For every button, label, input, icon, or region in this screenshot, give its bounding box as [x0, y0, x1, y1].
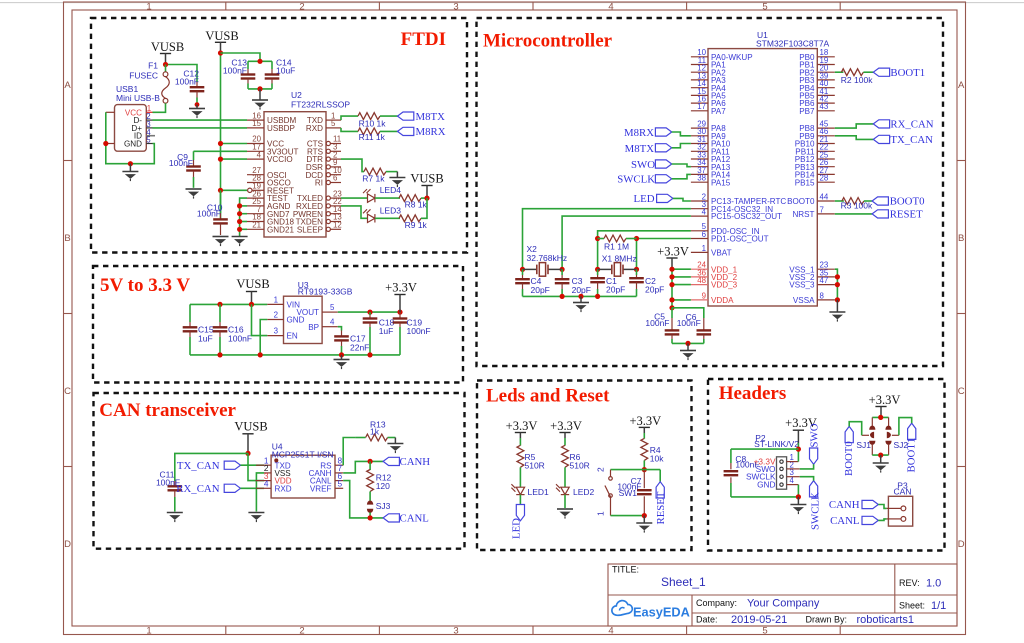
wire R6 to LED2 — [564, 467, 566, 487]
svg-text:VUSB: VUSB — [234, 420, 267, 434]
U2 right pin names — [293, 116, 324, 234]
svg-text:5: 5 — [762, 626, 767, 637]
node rail C18 — [367, 352, 372, 357]
Leds and Reset section box — [477, 381, 692, 551]
wire R7 to ground — [386, 171, 397, 173]
svg-text:20pF: 20pF — [572, 285, 591, 295]
svg-text:32.768kHz: 32.768kHz — [527, 253, 568, 263]
svg-text:1: 1 — [596, 511, 606, 516]
svg-text:+3.3V: +3.3V — [506, 419, 538, 433]
wire R5 to LED1 — [519, 467, 521, 487]
port M8RX — [398, 126, 446, 138]
svg-text:43: 43 — [820, 102, 829, 111]
wire R3 to BOOT0 — [864, 200, 872, 202]
wire BP to C17 — [338, 327, 342, 331]
svg-text:USBDP: USBDP — [267, 124, 295, 133]
svg-text:R7 1k: R7 1k — [362, 174, 385, 184]
svg-text:10uF: 10uF — [276, 66, 295, 76]
svg-text:RESET: RESET — [655, 491, 667, 524]
svg-text:100nF: 100nF — [169, 158, 193, 168]
wire R12 to SJ3 — [369, 492, 371, 501]
ground under VSS — [829, 300, 845, 322]
svg-text:D: D — [958, 539, 965, 550]
ground under C5/C6 — [680, 343, 696, 360]
wire +3.3V to R5 — [519, 438, 521, 446]
svg-text:3: 3 — [274, 327, 279, 336]
node C13/C14 top — [257, 59, 262, 64]
U1 left pin names — [711, 53, 786, 258]
wire P2 top rail to C8 — [731, 448, 799, 450]
port SWCLK (header) — [810, 481, 822, 530]
ground under USB1 — [122, 164, 138, 181]
svg-text:M8RX: M8RX — [624, 127, 654, 139]
wire EN to VIN — [252, 304, 268, 335]
wire regulator bottom rail — [190, 354, 400, 356]
svg-text:1: 1 — [146, 626, 151, 637]
svg-text:EasyEDA: EasyEDA — [633, 605, 690, 620]
capacitor C18 1uF — [363, 312, 395, 355]
svg-text:CANL: CANL — [830, 515, 859, 527]
svg-text:D: D — [64, 539, 71, 550]
svg-text:28: 28 — [820, 174, 829, 183]
power flag VUSB (regulator input) — [236, 277, 269, 304]
svg-text:38: 38 — [697, 174, 706, 183]
node R12 top — [368, 459, 373, 464]
node VCCIO pin4 — [218, 157, 223, 162]
svg-text:R2 100k: R2 100k — [841, 75, 873, 85]
resistor R9 1k — [399, 215, 428, 230]
wire PB9 to TX_CAN — [835, 136, 874, 140]
wire DTR to R7 — [341, 159, 364, 172]
svg-text:PC15-OSC32_OUT: PC15-OSC32_OUT — [711, 212, 782, 221]
node R1 right — [634, 236, 639, 241]
P2 pin stubs — [787, 462, 800, 485]
node R1 left — [595, 236, 600, 241]
svg-text:510R: 510R — [570, 461, 590, 471]
svg-text:B: B — [64, 233, 70, 244]
wire M8TX to PA10 — [672, 144, 691, 148]
svg-text:BOOT0: BOOT0 — [843, 441, 855, 476]
port CANH — [383, 456, 430, 468]
svg-text:Leds and Reset: Leds and Reset — [486, 386, 610, 407]
capacitor C10 100nF — [197, 190, 228, 235]
wire RESET pin19 — [221, 189, 248, 191]
capacitor C9 100nF — [169, 151, 201, 188]
ground under crystal rail — [573, 296, 589, 312]
port M8RX (to PA9) — [624, 127, 672, 139]
U3 pin numbers — [274, 295, 335, 335]
node GND21 — [237, 227, 242, 232]
svg-text:+3.3V: +3.3V — [869, 393, 901, 407]
svg-text:F1: F1 — [148, 61, 158, 71]
EasyEDA logo — [612, 601, 690, 620]
svg-text:1k: 1k — [370, 426, 380, 436]
wire PC15 to X2 right — [562, 216, 691, 269]
node P2 ground — [796, 494, 801, 499]
node VDD_3 — [669, 282, 674, 287]
wire GND pin to bottom rail — [260, 320, 267, 355]
crystal X1 8MHz — [598, 254, 637, 277]
LED1 — [511, 484, 549, 497]
node VCC pin20 — [218, 141, 223, 146]
wire SWCLK to PA14 — [672, 174, 691, 178]
header P2 ST-LINK/V2 — [754, 433, 799, 489]
svg-text:A: A — [64, 80, 71, 91]
svg-text:STM32F103C8T7A: STM32F103C8T7A — [756, 39, 830, 49]
svg-text:5: 5 — [338, 479, 343, 489]
svg-text:3: 3 — [453, 626, 458, 637]
LED2 — [556, 484, 595, 497]
wire reset bottom rail — [611, 515, 645, 517]
U1 left pins — [691, 57, 708, 300]
wire TXD to R10 — [341, 116, 358, 120]
wire RXLED to LED3 — [341, 206, 367, 218]
port TX_CAN (input) — [177, 460, 241, 472]
svg-text:GND: GND — [124, 140, 142, 149]
wire USBDP — [153, 127, 248, 129]
Headers section box — [708, 379, 945, 551]
Microcontroller section box — [477, 18, 944, 366]
wire CANL to flag — [343, 481, 383, 518]
svg-text:VOUT: VOUT — [297, 308, 320, 317]
wire CANH to P3 — [878, 505, 886, 509]
node rail C1 — [595, 294, 600, 299]
node VUSB rail top — [218, 50, 223, 55]
port SWCLK (to PA14) — [617, 174, 671, 186]
wire RX_CAN to RXD — [241, 487, 265, 489]
svg-text:2: 2 — [299, 626, 304, 637]
wire SWO flag to pin2 — [800, 464, 814, 469]
svg-text:2: 2 — [274, 311, 278, 320]
svg-text:22nF: 22nF — [350, 343, 369, 353]
svg-text:+3.3V: +3.3V — [385, 281, 417, 295]
wire C5/C6 top rail — [672, 308, 704, 318]
node VSSA — [835, 297, 840, 302]
resistor R11 1k — [358, 128, 386, 142]
ground under GND bus — [232, 237, 248, 247]
wire VSS to ground — [256, 473, 264, 512]
svg-text:C: C — [64, 386, 71, 397]
wire BOOT0 to R3 — [835, 200, 844, 202]
U2 left pins — [247, 120, 264, 229]
svg-text:SWO: SWO — [809, 423, 821, 447]
capacitor C6 100nF — [677, 312, 711, 343]
power flag +3.3V (boot jumpers) — [869, 393, 901, 418]
svg-text:VSS_3: VSS_3 — [789, 281, 815, 290]
svg-text:BOOT0: BOOT0 — [890, 196, 925, 208]
svg-text:VCCIO: VCCIO — [267, 155, 293, 164]
svg-text:RXD: RXD — [275, 484, 292, 493]
title block REV — [899, 578, 941, 590]
wire LED1 to port — [519, 495, 521, 508]
node X1 left — [595, 267, 600, 272]
svg-text:BOOT0: BOOT0 — [787, 197, 815, 206]
wire PD0 to X1 left — [598, 231, 691, 270]
svg-text:M8RX: M8RX — [416, 126, 446, 138]
svg-text:R9 1k: R9 1k — [405, 220, 428, 230]
node C5/C6 ground — [685, 341, 690, 346]
wire +3.3V to P2 pin1 — [797, 443, 799, 462]
title block Sheet — [899, 600, 946, 612]
svg-text:CANH: CANH — [829, 499, 860, 511]
svg-text:3: 3 — [453, 2, 458, 13]
svg-text:44: 44 — [820, 192, 829, 201]
frame row letters left — [64, 80, 71, 550]
svg-text:VREF: VREF — [310, 484, 332, 493]
svg-text:R11 1k: R11 1k — [359, 132, 386, 142]
svg-text:17: 17 — [697, 102, 706, 111]
wire VUSB to C13/C14 — [221, 53, 261, 61]
node VUSB/F1/C12 junction — [163, 62, 168, 67]
U1 right pins — [817, 57, 835, 300]
svg-text:6: 6 — [333, 174, 338, 183]
frame row letters right — [958, 80, 965, 550]
node VUSB/R8/R9 — [424, 196, 429, 201]
svg-text:Sheet_1: Sheet_1 — [661, 575, 706, 589]
svg-text:R1 1M: R1 1M — [604, 242, 629, 252]
ground under C13/C14 — [252, 89, 268, 110]
svg-text:2: 2 — [299, 2, 304, 13]
U2 left pin names — [267, 116, 299, 234]
power flag +3.3V (LED2) — [550, 419, 582, 438]
ground under LED2 — [557, 509, 573, 519]
U1 right pin names — [787, 53, 815, 305]
capacitor C1 20pF — [590, 269, 625, 296]
svg-text:R3 100k: R3 100k — [841, 201, 873, 211]
svg-text:CAN transceiver: CAN transceiver — [99, 400, 236, 421]
svg-text:100nF: 100nF — [223, 66, 247, 76]
capacitor C13 100nF — [223, 58, 255, 89]
svg-text:VUSB: VUSB — [205, 29, 238, 43]
svg-text:5: 5 — [330, 303, 335, 312]
resistor R7 1k — [362, 168, 386, 183]
svg-text:47: 47 — [820, 276, 829, 285]
IC U1 STM32F103C8T7A — [708, 30, 830, 306]
node rail C17 — [339, 352, 344, 357]
wire RXD to R11 — [341, 128, 358, 131]
svg-text:100nF: 100nF — [645, 318, 669, 328]
power flag VUSB (fuse input) — [151, 40, 184, 65]
wire R10 to M8TX — [380, 115, 398, 117]
svg-text:CANH: CANH — [400, 456, 431, 468]
svg-text:LED2: LED2 — [573, 487, 595, 497]
ground under regulator rail — [334, 355, 350, 369]
svg-text:5: 5 — [762, 2, 767, 13]
node VSS_3 — [835, 282, 840, 287]
svg-text:TX_CAN: TX_CAN — [890, 134, 933, 146]
power flag VUSB (CAN supply) — [234, 420, 267, 454]
wire VIN rail — [190, 303, 267, 305]
wire VUSB to C11 — [175, 453, 248, 481]
node GND7 — [237, 211, 242, 216]
wire fuse to USB1 pin1 — [153, 103, 166, 112]
svg-text:LED1: LED1 — [528, 487, 550, 497]
node rail C16 — [217, 352, 222, 357]
CAN transceiver section box — [94, 393, 465, 549]
wire BOOT0 to SJ1 — [849, 422, 862, 436]
U3 pin names — [287, 301, 320, 341]
svg-text:PA7: PA7 — [711, 107, 726, 116]
node VDDA — [669, 297, 674, 302]
capacitor C3 20pF — [555, 269, 591, 296]
wire R2 to BOOT1 — [863, 71, 873, 73]
resistor R10 1k — [358, 113, 386, 129]
svg-text:Headers: Headers — [719, 383, 787, 404]
wire +3.3V to R6 — [564, 438, 566, 446]
svg-text:4: 4 — [264, 479, 269, 489]
5V to 3.3V section box — [93, 266, 463, 383]
wire LED4 to R8 — [375, 197, 400, 199]
wire PB2 to R2 — [835, 71, 844, 73]
wire SWCLK flag to pin3 — [800, 477, 814, 481]
svg-text:8: 8 — [820, 291, 825, 300]
wire USB1 shield loop — [106, 112, 155, 163]
svg-text:PB7: PB7 — [799, 107, 815, 116]
U4 pins — [256, 465, 344, 488]
node C16 top — [217, 302, 222, 307]
svg-text:ST-LINK/V2: ST-LINK/V2 — [754, 439, 799, 449]
resistor R1 1M — [598, 235, 637, 251]
svg-text:20pF: 20pF — [531, 285, 550, 295]
port RX_CAN — [873, 119, 933, 131]
power flag +3.3V (LED1) — [506, 419, 538, 438]
port M8TX — [398, 111, 446, 123]
port BOOT1 (jumper) — [906, 423, 918, 472]
title block TITLE — [612, 565, 706, 590]
svg-text:R8 1k: R8 1k — [405, 200, 428, 210]
port CANL — [383, 513, 429, 525]
node rail GND — [258, 352, 263, 357]
svg-text:VSSA: VSSA — [793, 296, 815, 305]
U2 left pin numbers — [252, 111, 261, 229]
wire P2 pin4 to ground rail — [731, 485, 799, 497]
wire R8 to VUSB — [421, 197, 427, 199]
resistor R2 100k — [841, 69, 873, 85]
node X2 left — [520, 267, 525, 272]
capacitor C14 10uF — [265, 58, 296, 89]
port SWO (header) — [809, 423, 821, 464]
port LED (to PC13) — [634, 193, 673, 205]
wire CANL to P3 — [878, 519, 886, 521]
node VUSB stem — [249, 302, 254, 307]
svg-text:BOOT1: BOOT1 — [906, 438, 918, 473]
U2 right pin numbers — [331, 111, 342, 229]
node X1 right — [634, 267, 639, 272]
wire PC14 to X2 left — [523, 209, 691, 270]
svg-text:10k: 10k — [650, 454, 664, 464]
wire BOOT1 to SJ2 — [899, 418, 912, 436]
port RESET (output) — [655, 482, 667, 525]
U4 pin names — [275, 461, 333, 493]
svg-text:12: 12 — [333, 221, 342, 230]
svg-text:5: 5 — [331, 119, 336, 128]
port BOOT0 (jumper) — [843, 426, 855, 476]
sheet edge gray line — [0, 2, 1024, 4]
svg-text:VUSB: VUSB — [151, 40, 184, 54]
svg-text:LED: LED — [634, 193, 655, 205]
svg-text:4: 4 — [257, 150, 262, 159]
capacitor C15 1uF — [183, 304, 214, 355]
wire SJ3 to CANL node — [369, 513, 371, 518]
port RESET — [872, 209, 923, 221]
wire VUSB rail vertical — [220, 53, 222, 219]
svg-text:100nF: 100nF — [228, 334, 252, 344]
U2 right bubble pins — [326, 141, 341, 231]
node reset — [642, 467, 647, 472]
svg-text:48: 48 — [697, 276, 706, 285]
node C13/C14 bottom — [257, 86, 262, 91]
frame column ticks top — [226, 2, 840, 10]
wire R9 to VUSB — [421, 198, 427, 218]
resistor R8 1k — [399, 195, 428, 210]
node VUSB branch — [245, 451, 250, 456]
node VDD_2 — [669, 274, 674, 279]
svg-text:120: 120 — [376, 481, 390, 491]
port SWO (to PA13) — [631, 159, 672, 171]
svg-text:NRST: NRST — [792, 210, 814, 219]
svg-text:VUSB: VUSB — [236, 277, 269, 291]
capacitor C8 100nF — [724, 449, 760, 497]
svg-text:SWCLK: SWCLK — [810, 492, 822, 530]
node USB1 shield/GND — [103, 141, 108, 146]
frame column numbers bottom — [146, 626, 767, 637]
P2 pin numbers — [790, 453, 795, 485]
svg-text:15: 15 — [252, 119, 261, 128]
node USB1 ground — [128, 161, 133, 166]
P2 pin labels — [746, 457, 776, 490]
capacitor C2 20pF — [629, 269, 664, 296]
node rail gnd — [578, 294, 583, 299]
svg-text:PB15: PB15 — [795, 178, 815, 187]
node GND18 — [237, 219, 242, 224]
wire VCC pin20 — [221, 143, 248, 145]
svg-text:VUSB: VUSB — [410, 172, 443, 186]
svg-text:C: C — [958, 386, 965, 397]
port M8TX (to PA10) — [625, 143, 672, 155]
svg-text:100nF: 100nF — [175, 77, 199, 87]
svg-text:510R: 510R — [525, 461, 545, 471]
capacitor C7 100nF — [617, 470, 651, 516]
wire reset top rail — [611, 469, 661, 471]
svg-text:100nF: 100nF — [197, 208, 221, 218]
FTDI section box — [91, 18, 467, 253]
svg-text:4: 4 — [608, 2, 613, 13]
svg-text:REV:: REV: — [899, 578, 920, 588]
node VDD_1 — [669, 267, 674, 272]
svg-text:PD1-OSC_OUT: PD1-OSC_OUT — [711, 235, 769, 244]
ground under boot jumpers — [873, 455, 889, 473]
svg-text:EN: EN — [287, 332, 298, 341]
svg-text:M8TX: M8TX — [416, 111, 446, 123]
wire boot top rail — [872, 416, 888, 418]
resistor R5 510R — [517, 445, 545, 470]
power flag VUSB (main rail) — [205, 29, 238, 53]
node C19/+3.3V — [397, 310, 402, 315]
svg-text:1: 1 — [274, 295, 278, 304]
solder jumper SJ3 — [367, 501, 391, 513]
capacitor C4 20pF — [515, 269, 550, 296]
port TX_CAN — [873, 134, 933, 146]
ground under VSS — [248, 513, 264, 523]
svg-text:+3.3V: +3.3V — [657, 245, 689, 259]
wire R4 to node — [643, 460, 645, 469]
svg-text:RT9193-33GB: RT9193-33GB — [298, 287, 353, 297]
LED4 — [363, 185, 401, 202]
wire CANH to flag — [343, 461, 383, 473]
ground under P2 — [790, 497, 806, 514]
port LED (output) — [510, 505, 524, 540]
wire LED3 to R9 — [375, 217, 400, 219]
